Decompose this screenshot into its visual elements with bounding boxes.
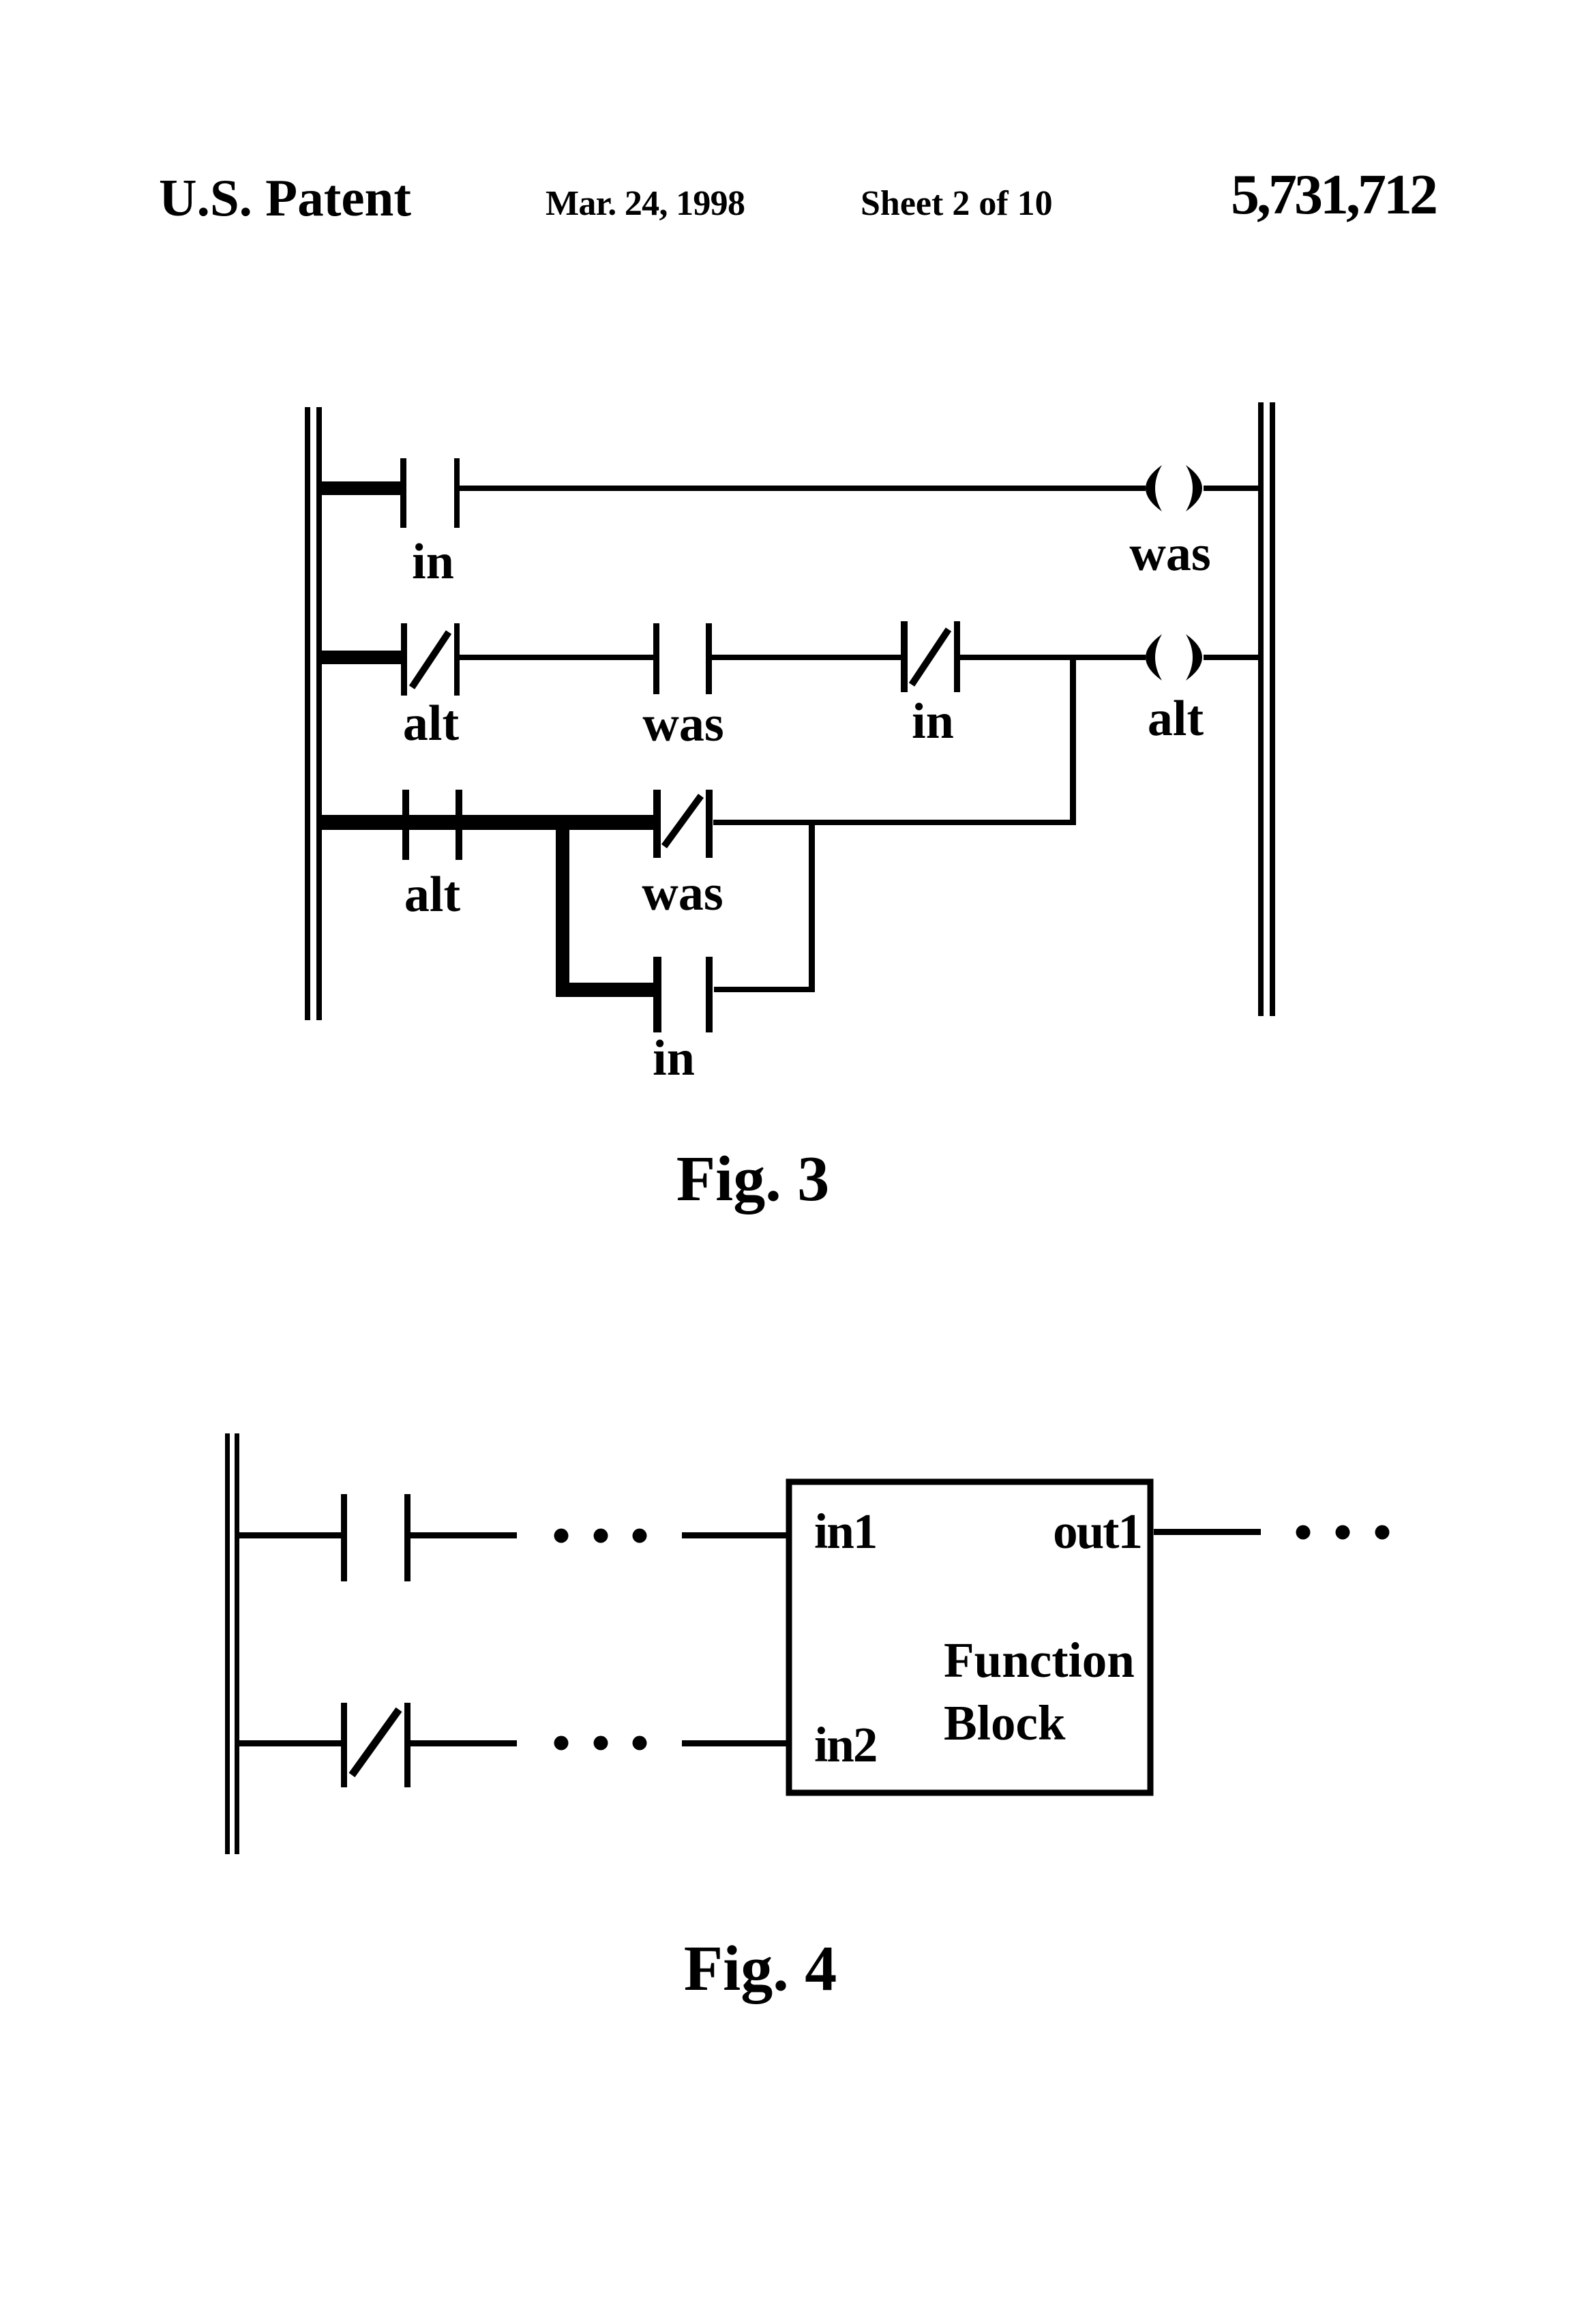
wire rung 1 to coil: [460, 486, 1146, 491]
svg-text:5,731,712: 5,731,712: [1231, 163, 1436, 226]
svg-text:U.S. Patent: U.S. Patent: [159, 168, 411, 227]
ellipsis dots rung 2: [554, 1736, 647, 1751]
wire branch right vertical: [809, 822, 815, 992]
thick vertical wire of parallel branch: [556, 815, 569, 997]
thick horizontal wire of parallel branch: [556, 983, 656, 997]
wire coil to right rail rung 1: [1204, 486, 1258, 491]
svg-text:in: in: [653, 1030, 695, 1086]
wire branch junction vertical rung2-rung3: [1070, 657, 1076, 822]
svg-text:in1: in1: [814, 1504, 876, 1559]
wire coil to right rail rung 2: [1204, 655, 1258, 660]
wire fig4 output: [1154, 1529, 1261, 1535]
svg-text:was: was: [642, 696, 723, 752]
wire fig4 rung 2 segment b: [682, 1740, 789, 1746]
svg-text:in2: in2: [814, 1717, 876, 1772]
svg-text:Fig. 4: Fig. 4: [684, 1933, 837, 2004]
wire rung 3 to junction: [713, 820, 1076, 825]
svg-text:out1: out1: [1053, 1504, 1141, 1559]
rung 3 thick wire from left rail: [318, 815, 656, 830]
contact "alt" rung 3: [402, 790, 462, 860]
contact "in" rung 1: [400, 458, 460, 528]
wire fig4 rung 2 from rail: [239, 1740, 341, 1746]
contact fig4 rung 1: [341, 1494, 411, 1581]
svg-text:Mar. 24, 1998: Mar. 24, 1998: [546, 184, 745, 223]
svg-text:Fig. 3: Fig. 3: [676, 1144, 830, 1215]
contact "in" branch: [653, 957, 713, 1032]
svg-text:alt: alt: [1148, 691, 1204, 747]
svg-text:was: was: [642, 865, 723, 921]
NC contact "alt" rung 2: [401, 623, 460, 696]
wire fig4 rung 1 segment b: [682, 1532, 789, 1538]
wire rung 2 segment b: [712, 655, 901, 660]
svg-text:in: in: [412, 534, 454, 590]
svg-text:Function: Function: [944, 1633, 1135, 1688]
wire branch right segment: [714, 987, 811, 992]
svg-text:Sheet 2 of 10: Sheet 2 of 10: [861, 184, 1053, 223]
wire fig4 rung 1 from rail: [239, 1532, 341, 1538]
function block U1: [789, 1482, 1150, 1793]
ellipsis dots rung 1: [554, 1529, 647, 1543]
svg-text:was: was: [1129, 526, 1210, 582]
contact "was" rung 2: [653, 623, 712, 694]
NC contact fig4 rung 2: [341, 1703, 411, 1787]
wire rung 2 segment a: [460, 655, 653, 660]
ellipsis dots output: [1296, 1525, 1390, 1540]
svg-text:Block: Block: [944, 1695, 1066, 1751]
rung 2 thick wire from left rail: [318, 651, 404, 664]
NC contact "in" rung 2: [901, 621, 960, 692]
wire fig4 rung 1 segment a: [411, 1532, 517, 1538]
left power rail (Fig.4): [225, 1433, 239, 1854]
svg-text:alt: alt: [403, 696, 460, 751]
right power rail (Fig.3): [1258, 402, 1275, 1016]
rung 1 thick wire from left rail: [318, 481, 406, 495]
svg-text:in: in: [912, 694, 954, 749]
NC contact "was" rung 3: [653, 790, 713, 858]
wire rung 2 segment c: [960, 655, 1146, 660]
left power rail (Fig.3): [305, 407, 322, 1020]
coil "alt" rung 2: [1146, 634, 1202, 681]
coil "was" rung 1: [1146, 465, 1202, 511]
wire fig4 rung 2 segment a: [411, 1740, 517, 1746]
svg-text:alt: alt: [404, 867, 461, 923]
